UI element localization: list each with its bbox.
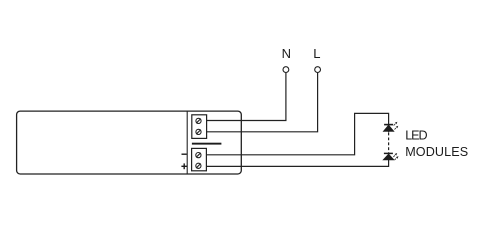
LED D1 light arrows <box>394 122 399 130</box>
driver box (LED driver enclosure) <box>17 111 242 174</box>
wire plus to LED chain bottom <box>207 160 389 167</box>
wire L to TB1 <box>207 73 318 132</box>
screw terminal 1 (N) <box>196 118 201 123</box>
wire minus to LED chain top <box>207 113 389 154</box>
LED D2 <box>383 153 394 160</box>
terminal node N <box>283 67 289 73</box>
svg-text:N: N <box>282 46 291 61</box>
screw terminal 4 (plus) <box>196 163 201 168</box>
label LED MODULES <box>405 128 468 159</box>
label L <box>313 46 320 61</box>
wire N to TB1 <box>207 73 286 121</box>
isolation separator bar <box>192 143 222 145</box>
terminal block TB1 (mains input) <box>192 115 207 139</box>
screw terminal 3 (minus) <box>196 153 201 158</box>
svg-text:L: L <box>313 46 320 61</box>
series wire (dashed, more LEDs implied) <box>388 132 390 154</box>
svg-text:MODULES: MODULES <box>405 145 468 159</box>
svg-text:LED: LED <box>405 128 427 142</box>
LED D2 light arrows <box>393 153 398 160</box>
label minus <box>182 153 187 155</box>
label N <box>282 46 291 61</box>
terminal compartment divider <box>186 111 188 173</box>
terminal node L <box>315 67 321 73</box>
terminal block TB2 (secondary output) <box>192 148 207 170</box>
screw terminal 2 (L) <box>196 129 201 134</box>
LED D1 <box>383 125 394 132</box>
label plus <box>181 163 187 169</box>
